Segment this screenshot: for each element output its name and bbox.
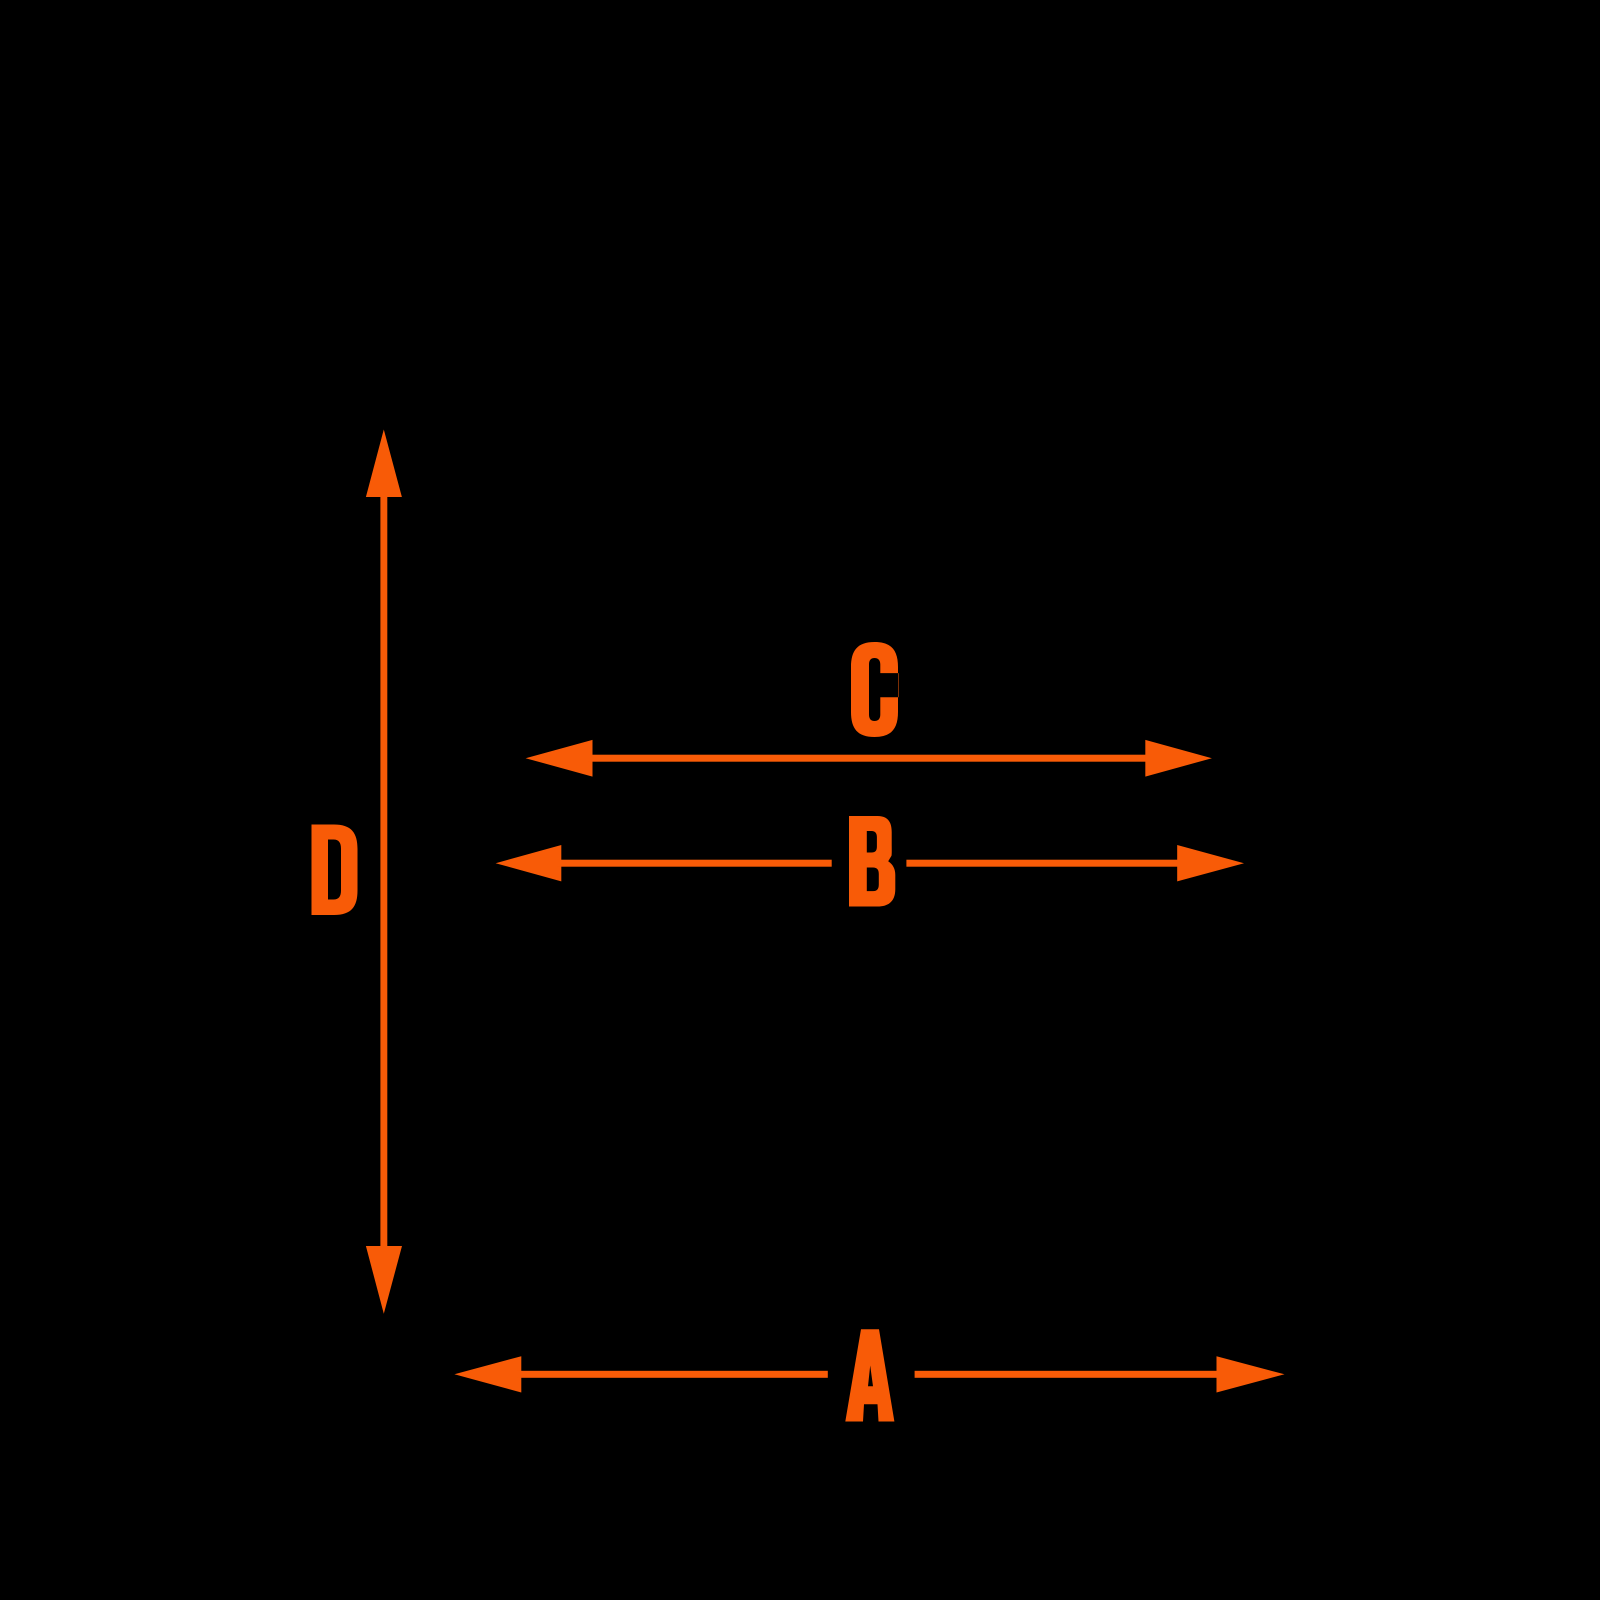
label B (849, 816, 895, 907)
arrowhead D top (366, 430, 402, 498)
arrowhead A left (454, 1356, 521, 1392)
arrowhead A right (1217, 1356, 1285, 1392)
dimension arrow C (horizontal double-headed) (526, 740, 1212, 777)
arrowhead B right (1177, 845, 1244, 881)
dimension arrow D (vertical double-headed) (366, 430, 402, 1314)
wire A shaft left (517, 1371, 828, 1378)
arrowhead C right (1145, 740, 1212, 777)
wire D shaft (380, 493, 387, 1250)
wire A shaft right (915, 1371, 1221, 1378)
arrowhead C left (526, 740, 593, 777)
arrowhead B left (496, 845, 562, 881)
label C (851, 642, 899, 737)
wire B shaft right (906, 860, 1181, 867)
wire C shaft (588, 755, 1149, 762)
dimension arrow A (horizontal double-headed, interrupted by label) (454, 1356, 1284, 1392)
wire B shaft left (557, 860, 832, 867)
arrowhead D bottom (366, 1246, 402, 1314)
label A (845, 1329, 894, 1421)
label D (312, 825, 358, 916)
dimension arrow B (horizontal double-headed, interrupted by label) (496, 845, 1244, 881)
